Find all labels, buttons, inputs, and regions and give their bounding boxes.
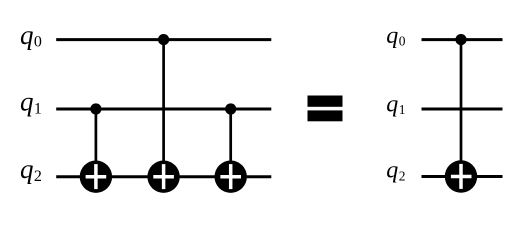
label q1 (right) xyxy=(386,92,405,118)
label q1 (left) xyxy=(20,87,42,118)
wire q0 (left) xyxy=(56,38,271,41)
wire q1 (left) xyxy=(56,108,271,111)
right CNOT control dot on q0 xyxy=(455,34,466,45)
label q0 (left) xyxy=(20,20,42,51)
CNOT1 control dot on q1 xyxy=(90,103,101,114)
wire: CNOT2 vertical connector xyxy=(162,40,165,177)
wire q2 (right) xyxy=(422,175,503,178)
label q2 (left) xyxy=(20,154,42,185)
wire q2 (left) xyxy=(56,175,271,178)
CNOT3 target on q2 xyxy=(215,161,247,193)
svg-text:q: q xyxy=(386,92,398,118)
svg-text:0: 0 xyxy=(399,33,406,48)
equals sign xyxy=(308,96,343,122)
svg-text:1: 1 xyxy=(399,102,406,117)
wire: CNOT1 vertical connector xyxy=(95,109,98,177)
svg-text:q: q xyxy=(20,154,34,184)
svg-text:2: 2 xyxy=(34,168,42,185)
wire: right CNOT vertical connector xyxy=(460,40,463,177)
svg-text:q: q xyxy=(386,158,398,184)
svg-text:1: 1 xyxy=(34,100,42,117)
CNOT2 target on q2 xyxy=(147,161,179,193)
right CNOT target on q2 xyxy=(445,160,477,192)
CNOT1 target on q2 xyxy=(80,161,112,193)
label q0 (right) xyxy=(386,23,405,49)
svg-text:2: 2 xyxy=(399,168,406,183)
wire: CNOT3 vertical connector xyxy=(229,109,232,177)
CNOT3 control dot on q1 xyxy=(225,103,236,114)
wire q0 (right) xyxy=(422,38,503,41)
wire q1 (right) xyxy=(422,108,503,111)
label q2 (right) xyxy=(386,158,405,184)
CNOT2 control dot on q0 xyxy=(158,34,169,45)
svg-text:q: q xyxy=(20,87,34,117)
svg-text:0: 0 xyxy=(34,34,42,51)
svg-text:q: q xyxy=(20,20,34,50)
svg-text:q: q xyxy=(386,23,398,49)
